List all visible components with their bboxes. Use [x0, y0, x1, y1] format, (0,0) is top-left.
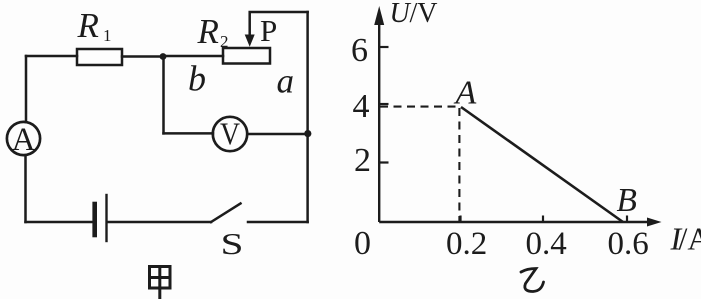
- wire top-left horizontal: [26, 55, 77, 58]
- svg-text:4: 4: [353, 88, 370, 125]
- node junction dot left: [160, 53, 167, 60]
- svg-text:B: B: [617, 182, 638, 219]
- x axis arrowhead: [647, 218, 662, 227]
- label U/V: [390, 0, 438, 29]
- svg-text:0.4: 0.4: [526, 226, 567, 262]
- x tick 0.2: [459, 216, 461, 223]
- x axis I: [379, 221, 650, 223]
- svg-text:/V: /V: [410, 0, 438, 29]
- wire left vertical lower: [24, 156, 27, 223]
- wire junction down to voltmeter row: [162, 57, 165, 134]
- svg-text:1: 1: [103, 26, 112, 45]
- svg-text:A: A: [12, 122, 36, 158]
- node junction dot right: [304, 130, 311, 137]
- svg-text:0.2: 0.2: [446, 226, 487, 262]
- svg-text:2: 2: [220, 32, 229, 51]
- wire R1 to junction: [122, 55, 163, 58]
- svg-text:A: A: [454, 75, 477, 112]
- wire left vertical upper: [25, 56, 28, 122]
- ammeter A1 circle: [7, 122, 40, 155]
- svg-text:0.6: 0.6: [608, 226, 649, 262]
- wire switch to right corner: [248, 221, 308, 224]
- label I/A: [670, 221, 701, 257]
- svg-text:a: a: [277, 62, 295, 101]
- x tick 0.4: [542, 216, 544, 223]
- label 乙 (drawn strokes): [521, 269, 544, 292]
- y axis arrowhead: [374, 6, 384, 25]
- wire voltmeter to right node: [247, 133, 307, 136]
- svg-text:/A: /A: [679, 221, 701, 257]
- y tick 4: [379, 103, 388, 105]
- slider P arrowhead: [245, 35, 255, 47]
- graph line A-B: [461, 107, 623, 222]
- x tick 0.6: [626, 216, 628, 223]
- wire battery to switch: [108, 221, 211, 224]
- label R2: [197, 12, 229, 51]
- svg-text:0: 0: [354, 225, 371, 262]
- y axis U: [378, 20, 380, 222]
- switch S lever: [211, 204, 241, 223]
- svg-text:P: P: [260, 13, 277, 48]
- dashed line x=0.2: [458, 108, 460, 221]
- wire slider top: [250, 12, 308, 35]
- svg-text:R: R: [197, 12, 219, 51]
- svg-text:6: 6: [351, 32, 368, 69]
- resistor R1: [77, 49, 122, 65]
- label R1: [77, 6, 112, 45]
- y tick 2: [379, 161, 388, 163]
- resistor R2 (rheostat body): [223, 48, 270, 64]
- wire right vertical: [306, 12, 309, 222]
- svg-text:V: V: [220, 116, 240, 152]
- svg-text:S: S: [221, 226, 244, 261]
- wire to voltmeter: [164, 132, 214, 135]
- voltmeter V1 circle: [213, 117, 247, 151]
- battery cell positive plate: [105, 195, 107, 241]
- svg-text:b: b: [188, 59, 206, 99]
- battery cell negative plate: [92, 204, 97, 235]
- svg-text:U: U: [390, 0, 412, 29]
- svg-text:R: R: [77, 6, 99, 45]
- label 甲 (drawn strokes): [150, 267, 171, 299]
- wire bottom left: [26, 221, 95, 224]
- svg-text:2: 2: [354, 142, 371, 179]
- dashed line y=4: [380, 106, 459, 108]
- wire junction to R2: [163, 55, 223, 58]
- y tick 6: [379, 46, 388, 48]
